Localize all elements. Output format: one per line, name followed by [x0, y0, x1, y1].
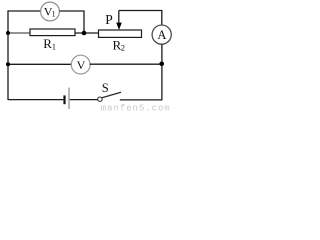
wire slider top to ammeter — [119, 11, 162, 26]
slider arrow P — [116, 11, 122, 30]
wire R1 row left — [8, 32, 30, 34]
node dot right V row — [159, 62, 164, 67]
battery long thin plate — [68, 88, 69, 109]
svg-text:S: S — [102, 81, 109, 95]
label R2 — [113, 37, 125, 52]
svg-text:1: 1 — [52, 10, 56, 19]
wire bottom left to battery — [8, 99, 63, 101]
svg-text:manfen5.com: manfen5.com — [101, 104, 171, 112]
voltmeter V1 — [41, 2, 60, 21]
rheostat R2 — [99, 30, 142, 37]
wire switch to bottom right corner — [120, 99, 163, 101]
switch blade — [102, 92, 121, 97]
wire right vertical below ammeter — [161, 44, 163, 100]
wire top-left from corner to V1 — [8, 10, 41, 12]
node dot left V row — [6, 62, 10, 66]
label R1 — [43, 36, 56, 52]
resistor R1 — [30, 29, 75, 36]
wire V row right — [90, 63, 162, 65]
node dot left R1 row — [6, 31, 10, 35]
wire battery to switch — [70, 99, 98, 101]
ammeter A — [152, 25, 171, 44]
battery short thick plate — [63, 95, 65, 104]
voltmeter V — [71, 55, 90, 74]
wire left vertical — [7, 10, 9, 100]
switch S pivot circle — [98, 97, 102, 101]
wire V row left — [8, 63, 71, 65]
node dot right of R1 — [82, 31, 87, 36]
wire V1 right down to node — [59, 11, 84, 33]
svg-text:P: P — [105, 12, 113, 27]
svg-text:2: 2 — [121, 42, 125, 52]
svg-text:1: 1 — [52, 42, 56, 52]
svg-text:A: A — [157, 28, 166, 42]
wire R1 to R2 — [75, 32, 99, 34]
svg-text:V: V — [77, 58, 86, 72]
